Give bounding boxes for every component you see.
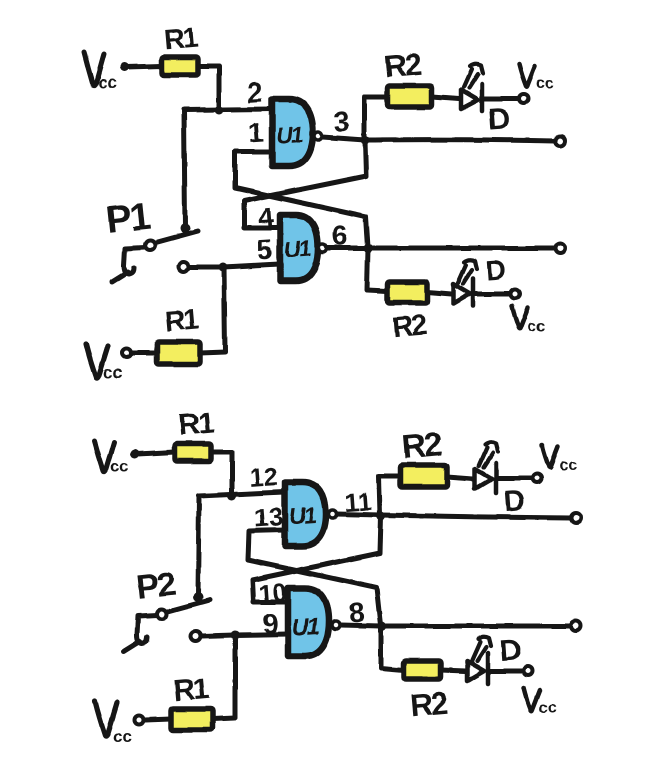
terminal output3 right (555, 136, 565, 146)
svg-text:9: 9 (262, 607, 280, 639)
resistor R2 top (circuit 1) (387, 86, 432, 107)
svg-text:D: D (485, 254, 507, 286)
wire R2 to LED D3 (447, 477, 473, 479)
resistor R2 bottom (circuit 2) (404, 661, 441, 679)
label Vcc LED D4 (524, 688, 557, 717)
svg-text:8: 8 (348, 596, 366, 628)
svg-text:4: 4 (257, 201, 275, 233)
terminal Vcc lower-left circle (123, 349, 132, 358)
label Vcc LED D1 (519, 64, 554, 92)
net Vcc label top-left (84, 52, 104, 86)
diode LED D2 (453, 260, 477, 306)
node junction pin9 (231, 631, 240, 640)
resistor R1 top (circuit 2) (175, 444, 211, 461)
wire LED D4 to Vcc (489, 669, 522, 674)
node switch P1 top contact dot (180, 223, 190, 233)
wire output 3 (323, 137, 365, 140)
wire R2 lower to LED D4 (441, 670, 465, 671)
resistor R1 bottom (circuit 1) (157, 342, 200, 364)
wire output 6 (326, 246, 368, 251)
wire LED D2 to Vcc (475, 292, 509, 297)
wire node to gate pin 9 (235, 634, 288, 635)
terminal output11 right (571, 513, 581, 523)
wire node to gate pin 5 (223, 264, 280, 267)
terminal output6 right (555, 243, 565, 253)
wire output 3 long to terminal (365, 140, 555, 141)
wire output 11 up to R2 branch (379, 476, 400, 515)
wire output 8 long to terminal (382, 624, 571, 629)
resistor R2 bottom (circuit 1) (387, 282, 427, 303)
svg-text:13: 13 (253, 501, 284, 533)
svg-text:R2: R2 (401, 425, 444, 465)
terminal Vcc lower-left circle c2 (135, 716, 144, 725)
node Vcc dot top-left (120, 63, 129, 72)
wire R1 to pin2 node (198, 66, 219, 109)
label Vcc lower-left c2 (95, 701, 132, 746)
svg-text:R2: R2 (391, 309, 428, 344)
svg-text:D: D (503, 484, 527, 518)
svg-text:1: 1 (247, 116, 265, 148)
resistor R1 top (circuit 1) (162, 57, 198, 75)
node junction output6 (364, 244, 373, 253)
wire pin4 cross-coupling from output 3 (244, 141, 366, 228)
svg-text:U1: U1 (283, 235, 311, 263)
wire node down to R1 lower c2 (213, 635, 235, 719)
svg-text:R1: R1 (177, 406, 215, 442)
resistor R2 top (circuit 2) (400, 465, 447, 487)
svg-text:D: D (487, 102, 511, 136)
svg-text:R1: R1 (172, 672, 210, 708)
node junction pin5 (219, 263, 228, 272)
wire pin10 cross-coupling from output 11 (252, 516, 381, 602)
wire output 6 long to terminal (368, 246, 555, 251)
svg-text:2: 2 (246, 77, 264, 109)
terminal output8 right (571, 621, 581, 631)
svg-text:cc: cc (527, 318, 545, 335)
wire Vcc dot to R1 (126, 66, 162, 67)
svg-text:10: 10 (257, 577, 288, 609)
terminal Vcc LED D3 (533, 474, 542, 483)
svg-text:R2: R2 (409, 685, 448, 723)
diode LED D1 (461, 64, 483, 111)
svg-text:cc: cc (103, 363, 122, 382)
node junction pin12 (228, 492, 237, 501)
svg-text:5: 5 (256, 233, 274, 265)
svg-text:R2: R2 (383, 46, 422, 84)
wire R1 to pin12 node (211, 452, 232, 495)
terminal Vcc LED D4 (524, 667, 533, 676)
svg-text:U1: U1 (291, 613, 319, 641)
wire pin1 cross-coupling from output 6 (235, 152, 368, 247)
switch P1 hook (124, 266, 134, 274)
terminal Vcc LED D2 (511, 290, 520, 299)
svg-text:3: 3 (333, 105, 351, 137)
diode LED D3 (475, 443, 498, 493)
op-amp U1 gate B (pins 4,5,6) (280, 215, 327, 281)
label Vcc LED D3 (542, 445, 577, 474)
wire output 6 down to R2 branch (367, 248, 387, 291)
wire down to switch P1 (184, 110, 185, 227)
svg-text:R1: R1 (164, 303, 200, 337)
switch P1 lever (154, 231, 198, 243)
switch P1 pole circle (145, 240, 155, 250)
wire output 11 long to terminal (381, 515, 571, 518)
wire LED D1 to Vcc (484, 97, 518, 102)
switch P1 lower contact circle (179, 262, 189, 272)
switch P1 actuator stroke (112, 272, 128, 282)
wire R2 to LED D1 (432, 97, 459, 99)
svg-text:cc: cc (113, 727, 132, 746)
switch P2 pole wire (137, 615, 157, 635)
switch P2 lever (166, 600, 210, 612)
wire node to gate pin 12 (199, 492, 285, 496)
op-amp U1 gate A (pins 1,2,3) (272, 99, 323, 166)
switch P2 pole circle (157, 609, 167, 619)
svg-text:U1: U1 (288, 502, 316, 530)
label Vcc lower-left (86, 344, 122, 382)
wire node down to R1 lower (200, 267, 225, 353)
diode LED D4 (467, 637, 491, 684)
label Vcc LED D2 (512, 306, 545, 335)
wire output 8 down to R2 branch (381, 626, 404, 670)
switch P2 lower contact circle (191, 631, 201, 641)
svg-text:cc: cc (536, 75, 554, 92)
wire R1 lower to Vcc (133, 351, 157, 356)
svg-text:cc: cc (539, 700, 557, 717)
switch P2 hook (137, 635, 147, 643)
wire node to gate pin 2 (184, 109, 272, 110)
wire Vcc dot to R1 c2 (137, 452, 175, 454)
wire R2 lower to LED D2 (427, 292, 451, 294)
svg-text:P2: P2 (134, 565, 176, 607)
wire output 8 (340, 625, 382, 626)
terminal Vcc LED D1 (520, 95, 529, 104)
svg-text:cc: cc (110, 457, 129, 476)
svg-text:cc: cc (559, 457, 577, 474)
node junction output3 (361, 136, 370, 145)
svg-text:R1: R1 (163, 22, 199, 56)
svg-text:6: 6 (331, 219, 349, 251)
wire LED D3 to Vcc (498, 476, 531, 481)
wire R1 lower to Vcc c2 (145, 719, 171, 720)
wire down to switch P2 (198, 496, 199, 596)
wire pin13 cross-coupling from output 8 (248, 530, 381, 625)
net Vcc label top-left c2 (94, 441, 114, 472)
node junction pin2 (215, 106, 224, 115)
svg-text:cc: cc (98, 73, 117, 92)
svg-text:D: D (499, 633, 523, 667)
wire output 11 (336, 514, 381, 515)
switch P2 actuator stroke (124, 641, 140, 651)
wire P1 contact to node (190, 265, 223, 270)
node junction output8 (378, 622, 387, 631)
node Vcc dot top-left c2 (131, 450, 140, 459)
op-amp U1 gate D (pins 10,9,8) (288, 588, 340, 656)
svg-text:12: 12 (248, 461, 279, 493)
op-amp U1 gate C (pins 12,13,11) (285, 482, 337, 546)
svg-text:P1: P1 (104, 196, 152, 242)
wire P2 contact to node (202, 635, 235, 636)
switch P1 pole wire (124, 247, 145, 266)
node switch P2 top contact dot (193, 592, 203, 602)
node junction output11 (377, 512, 386, 521)
svg-text:U1: U1 (275, 121, 303, 149)
wire output 3 up to R2 branch (364, 97, 386, 137)
svg-text:11: 11 (343, 486, 373, 518)
resistor R1 bottom (circuit 2) (171, 709, 213, 730)
